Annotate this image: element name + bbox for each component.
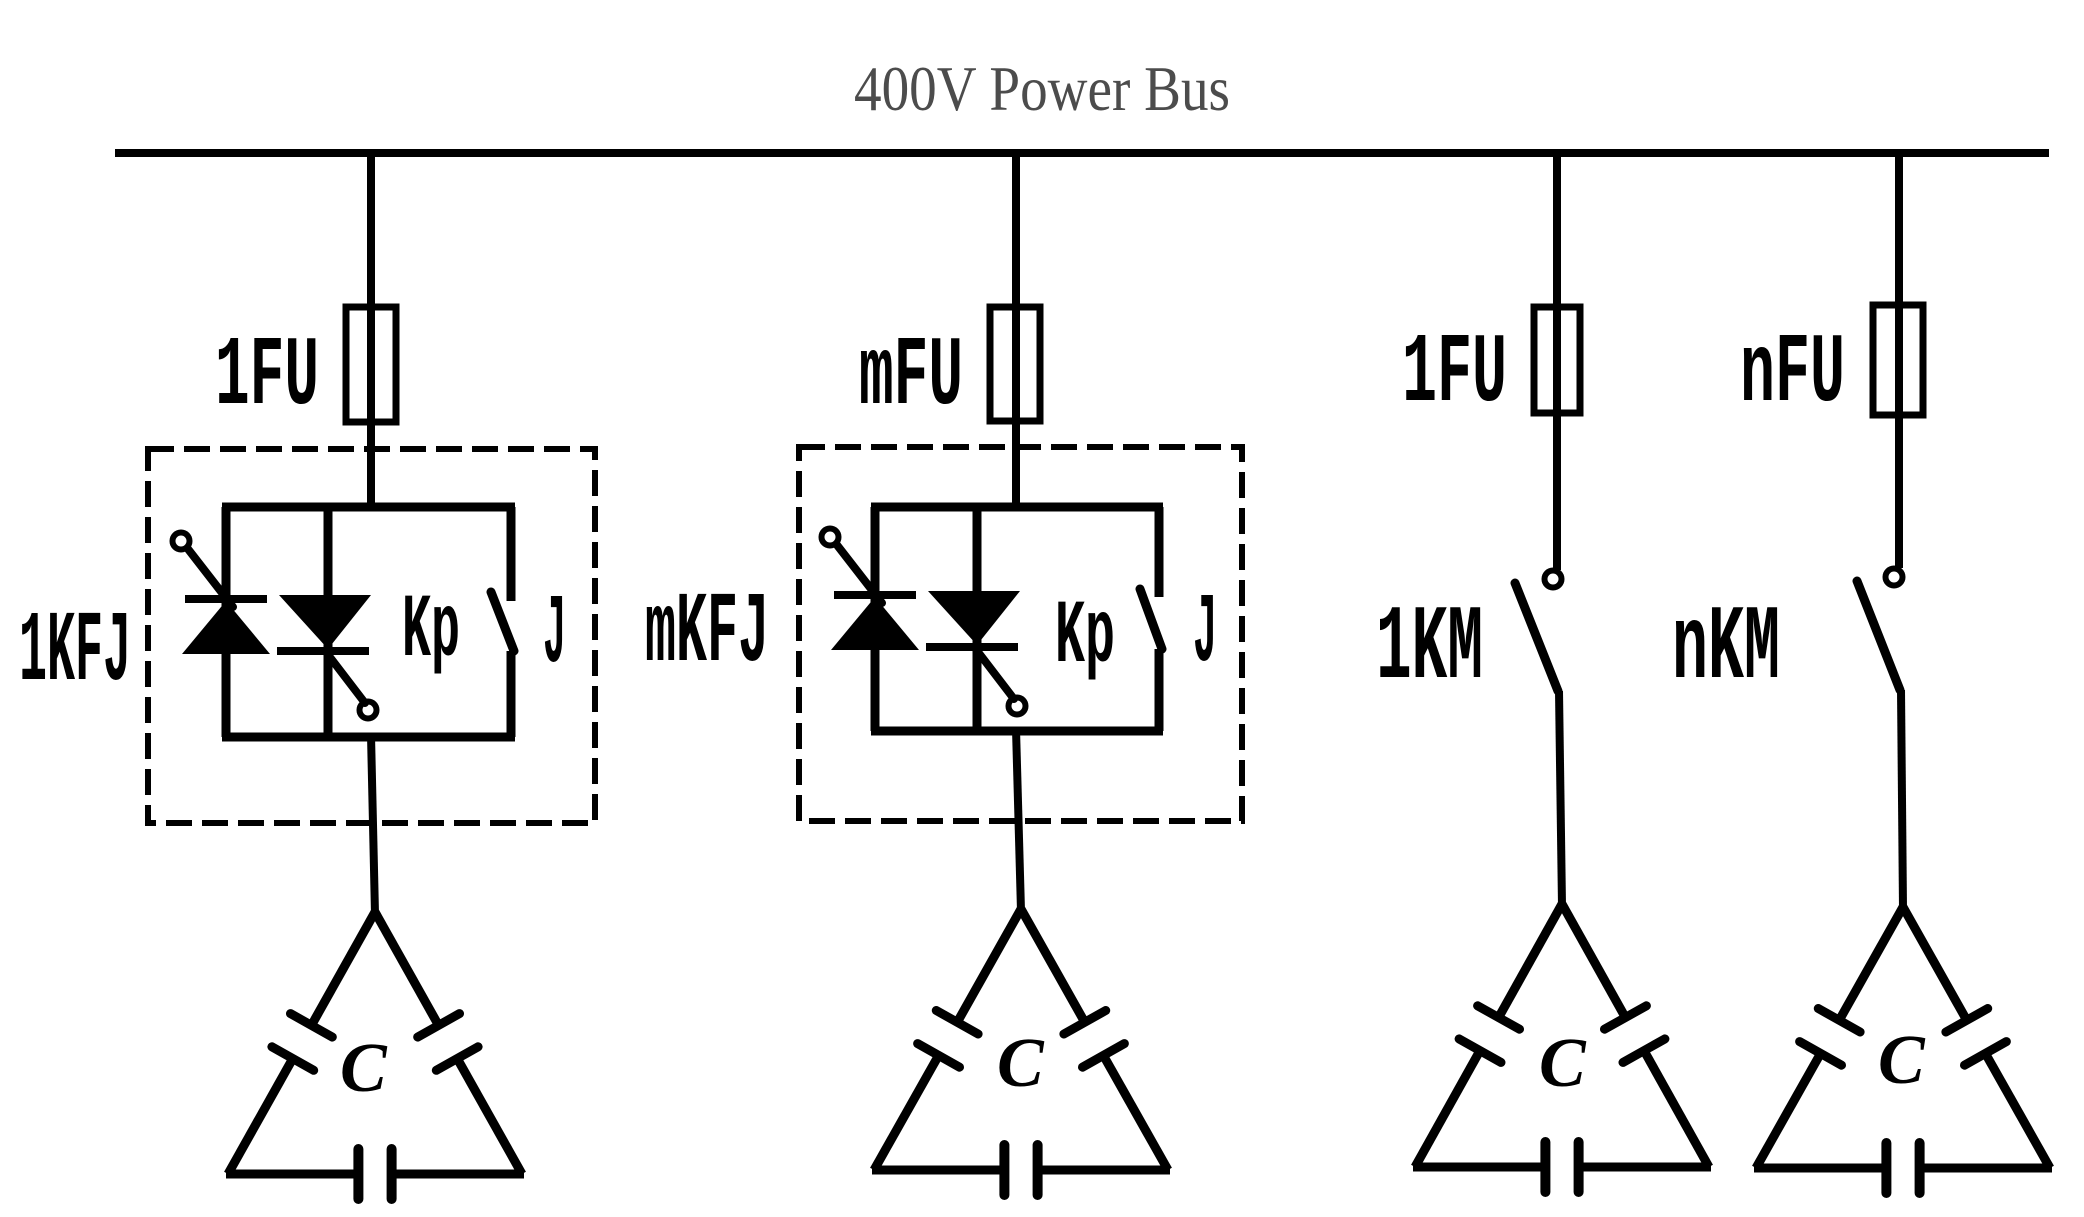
capacitor plate right upper (C3) (1605, 1006, 1647, 1029)
svg-text:1KFJ: 1KFJ (19, 597, 131, 710)
wire: delta left side lower (C3) (1415, 1051, 1480, 1167)
svg-text:mKFJ: mKFJ (645, 578, 769, 691)
thyristor Kp forward (branch 2): gate lead (837, 545, 882, 603)
wire: delta left side upper (C4) (1839, 907, 1903, 1020)
svg-text:Kp: Kp (1055, 587, 1115, 689)
thyristor Kp reverse (branch 1): triangle (279, 595, 371, 649)
wire: branch 3 drop from bus to fuse (1553, 153, 1561, 570)
wire: delta bottom side left (C4) (1754, 1164, 1886, 1173)
thyristor Kp reverse (branch 2): gate terminal circle (1009, 698, 1026, 715)
wire: module 2 bottom rail (871, 727, 1163, 736)
dashed enclosure 1KFJ (148, 449, 595, 823)
thyristor Kp forward (branch 1): triangle (182, 601, 270, 654)
wire: delta right side upper (C3) (1562, 904, 1625, 1018)
thyristor Kp forward (branch 1): gate lead (188, 549, 233, 607)
wire: branch 1 drop from bus to fuse 1FU (367, 153, 375, 510)
thyristor Kp forward (branch 1): cathode bar (185, 595, 267, 603)
thyristor Kp reverse (branch 1): gate lead (326, 652, 365, 703)
thyristor Kp forward (branch 2): cathode bar (834, 591, 916, 599)
capacitor plate right upper (C1) (418, 1014, 460, 1038)
wire: delta left side upper (C1) (311, 912, 375, 1025)
svg-text:nKM: nKM (1672, 589, 1780, 709)
capacitor plate bottom left (C3) (1540, 1142, 1550, 1192)
capacitor plate bottom right (C1) (387, 1149, 397, 1199)
wire: delta bottom side right (C3) (1579, 1163, 1711, 1172)
wire: branch 4 drop from bus to fuse (1895, 153, 1903, 568)
wire: delta bottom side left (C1) (226, 1170, 358, 1179)
svg-text:C: C (340, 1030, 388, 1107)
capacitor plate bottom left (C4) (1881, 1143, 1891, 1193)
capacitor plate right lower (C4) (1965, 1042, 2007, 1066)
wire: delta bottom side right (C4) (1920, 1164, 2052, 1173)
wire: module 1 top rail (222, 503, 515, 512)
fuse 1FU (branch 1) (346, 307, 396, 422)
svg-text:J: J (1193, 579, 1217, 690)
wire: module 1 bottom rail (222, 733, 515, 742)
capacitor plate left upper (C1) (291, 1014, 333, 1038)
capacitor plate right upper (C2) (1064, 1011, 1106, 1035)
wire: branch 1 from module to capacitor bank (371, 735, 375, 914)
contact J upper lead (branch 2) (1155, 507, 1164, 597)
wire: delta bottom side right (C1) (392, 1170, 524, 1179)
bus: 400V power bus bar (115, 149, 2049, 157)
svg-text:400V Power Bus: 400V Power Bus (854, 53, 1230, 124)
wire: delta right side upper (C1) (375, 912, 439, 1025)
capacitor plate bottom right (C3) (1574, 1142, 1584, 1192)
capacitor plate left lower (C3) (1459, 1039, 1501, 1063)
thyristor Kp reverse (branch 2): triangle (928, 591, 1020, 645)
capacitor plate bottom right (C4) (1915, 1143, 1925, 1193)
contact J blade (branch 2) (1140, 589, 1162, 649)
thyristor Kp forward (branch 1): gate terminal circle (173, 533, 190, 550)
capacitor plate right upper (C4) (1946, 1009, 1988, 1033)
contact J upper lead (branch 1) (507, 507, 516, 601)
wire: delta right side upper (C2) (1021, 909, 1085, 1022)
wire: delta left side lower (C1) (228, 1059, 293, 1175)
capacitor plate bottom left (C1) (353, 1149, 363, 1199)
capacitor plate right lower (C3) (1623, 1039, 1665, 1063)
svg-text:C: C (1539, 1025, 1587, 1102)
thyristor Kp forward (branch 2): triangle (831, 597, 919, 650)
wire: delta right side upper (C4) (1903, 907, 1967, 1020)
wire: branch 2 from module to capacitor bank (1016, 729, 1021, 911)
svg-text:C: C (1878, 1022, 1926, 1099)
svg-text:Kp: Kp (402, 581, 460, 683)
wire: delta left side upper (C2) (957, 909, 1021, 1022)
wire: module 1 left leg (222, 507, 231, 737)
wire: delta bottom side left (C3) (1413, 1163, 1545, 1172)
wire: delta left side lower (C4) (1756, 1053, 1821, 1168)
svg-text:nFU: nFU (1740, 319, 1845, 430)
thyristor Kp reverse (branch 1): anode bar (277, 647, 369, 655)
wire: delta right side lower (C3) (1644, 1051, 1709, 1167)
wire: module 2 left leg (871, 507, 880, 731)
wire: delta right side lower (C2) (1103, 1055, 1168, 1170)
fuse 1FU (branch 3) (1534, 307, 1580, 413)
wire: module 1 middle leg (324, 507, 333, 737)
contact nKM blade (1857, 581, 1900, 690)
capacitor plate left upper (C3) (1478, 1006, 1520, 1029)
svg-text:1FU: 1FU (215, 322, 319, 433)
thyristor Kp reverse (branch 2): gate lead (975, 648, 1014, 699)
dashed enclosure mKFJ (799, 447, 1242, 821)
wire: delta bottom side left (C2) (872, 1166, 1004, 1175)
wire: module 2 top rail (871, 503, 1163, 512)
capacitor plate right lower (C2) (1083, 1044, 1125, 1068)
fuse nFU (branch 4) (1873, 305, 1923, 415)
wire: branch 3 from contact to capacitor bank (1559, 691, 1562, 906)
contact J blade (branch 1) (491, 592, 514, 651)
capacitor plate left lower (C2) (918, 1044, 960, 1068)
svg-text:1KM: 1KM (1376, 589, 1483, 709)
capacitor plate left lower (C1) (272, 1047, 314, 1071)
wire: module 2 middle leg (973, 507, 982, 731)
svg-text:mFU: mFU (859, 322, 963, 433)
thyristor Kp reverse (branch 2): anode bar (926, 643, 1018, 651)
fuse mFU (branch 2) (990, 307, 1040, 421)
contact 1KM blade (1515, 583, 1558, 691)
wire: branch 2 drop from bus to fuse mFU (1012, 153, 1020, 510)
svg-text:J: J (543, 580, 566, 691)
wire: branch 4 from contact to capacitor bank (1901, 690, 1903, 909)
capacitor plate right lower (C1) (436, 1047, 478, 1071)
capacitor plate left lower (C4) (1800, 1042, 1842, 1066)
svg-text:C: C (997, 1025, 1045, 1102)
thyristor Kp forward (branch 2): gate terminal circle (822, 529, 839, 546)
wire: delta right side lower (C1) (457, 1059, 522, 1175)
capacitor plate left upper (C4) (1818, 1009, 1860, 1033)
wire: delta left side upper (C3) (1499, 904, 1562, 1018)
wire: delta bottom side right (C2) (1038, 1166, 1170, 1175)
contact J lower lead (branch 1) (507, 651, 516, 737)
svg-text:1FU: 1FU (1402, 319, 1507, 430)
capacitor plate bottom right (C2) (1033, 1145, 1043, 1195)
wire: delta left side lower (C2) (874, 1055, 939, 1170)
contact J lower lead (branch 2) (1155, 649, 1164, 731)
capacitor plate bottom left (C2) (999, 1145, 1009, 1195)
contact nKM fixed terminal circle (1886, 569, 1903, 586)
wire: delta right side lower (C4) (1985, 1053, 2050, 1168)
thyristor Kp reverse (branch 1): gate terminal circle (360, 702, 377, 719)
capacitor plate left upper (C2) (936, 1011, 978, 1035)
contact 1KM fixed terminal circle (1545, 571, 1562, 588)
